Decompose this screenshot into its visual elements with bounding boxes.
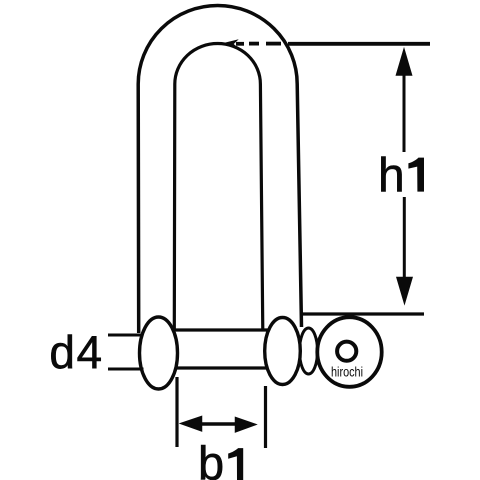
pin head ellipse at left leg xyxy=(140,317,178,389)
label b1 xyxy=(198,437,243,480)
svg-text:d4: d4 xyxy=(49,326,103,378)
shackle bow outer outline xyxy=(138,6,301,334)
svg-text:h: h xyxy=(378,150,405,203)
pin head eye circle xyxy=(317,317,381,387)
label h1 xyxy=(378,150,424,203)
dimension h1 vertical arrow xyxy=(397,50,413,304)
svg-text:hirochi: hirochi xyxy=(331,364,363,380)
pin shaft xyxy=(160,330,270,368)
label d4 xyxy=(49,326,103,378)
d4 pointer lines xyxy=(108,335,144,369)
b1 extension line right xyxy=(264,386,267,448)
centerline dash-dot with small arrowhead xyxy=(222,40,431,48)
b1 extension line left xyxy=(175,377,178,447)
baseline at bottom of shackle xyxy=(303,312,424,315)
pin head hole xyxy=(337,342,356,361)
pin flange ellipse at right leg xyxy=(265,318,301,385)
svg-text:b: b xyxy=(198,437,224,480)
dimension b1 double arrow xyxy=(181,417,256,432)
shackle bow inner outline xyxy=(174,44,262,332)
watermark hirochi xyxy=(331,364,363,380)
pin collar small at right leg xyxy=(300,328,318,374)
